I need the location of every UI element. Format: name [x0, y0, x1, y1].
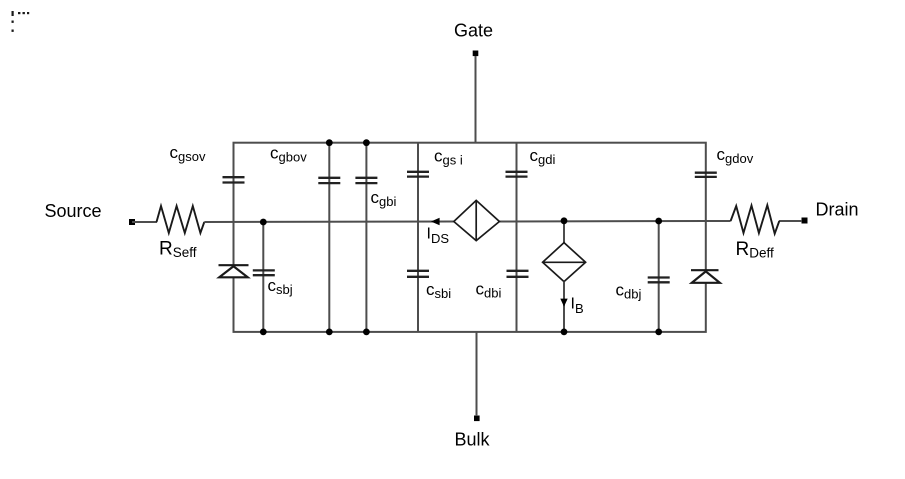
capacitor Cgdov	[695, 173, 717, 177]
capacitor Cgdi	[506, 172, 528, 177]
drain terminal dot	[802, 218, 808, 224]
capacitor Csbj	[253, 270, 275, 275]
capacitor Cdbi	[507, 271, 529, 277]
wire main horizontal (source side to IDS left vertex)	[204, 221, 453, 224]
svg-text:Drain: Drain	[816, 200, 859, 220]
current source IDS (diamond)	[454, 200, 500, 240]
wire main horizontal (IDS right vertex to box right edge)	[499, 220, 705, 223]
diode source-bulk (left edge)	[219, 265, 249, 277]
wire gate lead	[475, 56, 477, 143]
capacitor Cgbov right	[355, 178, 377, 183]
wire internal vertical x=329.3	[328, 143, 330, 332]
source terminal dot	[129, 219, 135, 225]
svg-text:Source: Source	[45, 201, 102, 221]
wire source lead	[132, 221, 157, 223]
junction dots	[260, 139, 662, 335]
capacitor Cdbj	[648, 278, 670, 283]
wire Csbj branch	[262, 222, 264, 332]
gate terminal dot	[473, 51, 479, 57]
wire internal vertical x=516.5	[516, 143, 518, 332]
capacitor Cgsi	[407, 172, 429, 177]
wire drain lead	[779, 220, 802, 222]
capacitor Cgbov left	[318, 178, 340, 183]
wire Cdbj branch	[658, 221, 660, 332]
box outline	[234, 143, 706, 332]
arrow IDS (points left)	[431, 218, 440, 226]
capacitor Csbi	[407, 271, 429, 277]
capacitor Cgsov	[223, 177, 245, 182]
arrow IB (points down)	[560, 299, 567, 307]
resistor RDeff	[706, 220, 731, 222]
wire internal vertical x=418	[417, 143, 419, 332]
svg-text:Gate: Gate	[454, 21, 493, 41]
diode drain-bulk (right edge)	[691, 270, 720, 283]
bulk terminal dot	[474, 416, 480, 422]
corner mark dots	[12, 11, 30, 32]
wire bulk lead	[476, 332, 478, 416]
resistor RSeff	[157, 206, 205, 233]
wire internal vertical x=366.4	[365, 143, 367, 332]
svg-text:Bulk: Bulk	[454, 430, 490, 450]
current source IB (diamond)	[563, 221, 565, 243]
